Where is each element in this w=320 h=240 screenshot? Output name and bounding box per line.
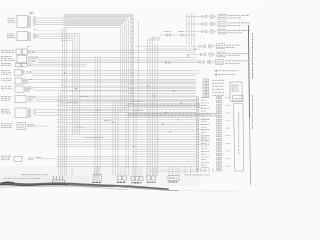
- lamp LP1 front combination RH: [187, 14, 250, 19]
- wire bundle nested corners top: [64, 19, 129, 112]
- connector column J3: [217, 97, 231, 171]
- lamp LP6: [38, 60, 248, 65]
- wire block L5: [57, 101, 211, 135]
- vertical harness V7: [155, 44, 158, 176]
- wire from B1: [35, 158, 57, 160]
- wire from D1: [26, 125, 48, 127]
- wire from F1: [34, 64, 87, 66]
- wire bus from E1: [38, 34, 77, 38]
- vertical harness trunk V1: [59, 28, 67, 176]
- page edge line: [248, 25, 250, 185]
- connector B6: [186, 168, 213, 175]
- connector B5: [168, 176, 179, 183]
- connector pin pairs J1: [203, 79, 224, 96]
- wire bus from M1: [36, 110, 196, 116]
- connector E103 inline: [165, 61, 170, 63]
- footer note: [4, 178, 40, 180]
- control unit U2: [1, 96, 35, 103]
- wire bus from S2: [38, 58, 201, 63]
- control unit U1 (A/T control): [8, 12, 36, 27]
- vertical harness V8 to lamps: [187, 14, 195, 48]
- wire color codes label: [21, 174, 48, 176]
- lamp LP4 clearance: [135, 44, 240, 49]
- terminal column J2: [197, 97, 210, 172]
- connector strip CS2: [128, 104, 200, 107]
- node TO EL-TAIL: [214, 70, 238, 76]
- wire group L8: [57, 157, 197, 167]
- connector strip CS1 top: [64, 15, 133, 104]
- junction box JB1: [233, 96, 244, 102]
- harness cover panel: [234, 104, 244, 172]
- wire group L3: [61, 81, 197, 96]
- margin note EL-44: [252, 33, 254, 129]
- wire bus from U2: [36, 97, 200, 102]
- connector B3: [131, 177, 143, 183]
- connector B2: [117, 176, 127, 182]
- connector strip CS3: [128, 113, 216, 116]
- lamp LP2 front combination LH: [187, 22, 250, 27]
- vertical harness V4: [113, 100, 118, 176]
- combination meter M1: [1, 108, 36, 118]
- lamp LP3 side marker: [187, 29, 250, 34]
- wire group L6: [57, 137, 211, 145]
- wire drops to bottom connectors: [72, 167, 191, 177]
- wire bus from E2: [32, 71, 200, 76]
- wire bus from S4: [33, 88, 196, 91]
- wire group L2: [64, 71, 199, 73]
- connector E102 inline: [145, 32, 200, 50]
- shielded wire L9: [150, 170, 196, 172]
- fuse F1: [1, 63, 33, 67]
- page curl shadow: [0, 182, 240, 191]
- ground G2: [53, 176, 65, 183]
- vertical harness V5: [126, 103, 136, 176]
- relay E2: [1, 70, 31, 75]
- node labels mid harness: [67, 97, 143, 138]
- ground connector G1: [92, 175, 102, 183]
- vertical harness V6: [139, 21, 161, 176]
- wire group L7: [57, 147, 197, 155]
- wire from S1: [35, 51, 196, 53]
- junction nodes: [64, 55, 189, 147]
- switch S2 lighting switch: [1, 55, 38, 63]
- wire bundle nested corners left: [61, 34, 80, 135]
- switch S1: [1, 47, 35, 55]
- connector B4: [147, 176, 156, 182]
- wire bus from S3: [28, 80, 196, 83]
- lamp LP5: [187, 52, 248, 57]
- sensor B1: [1, 156, 41, 161]
- fuse block F23: [230, 82, 242, 101]
- wire bus from U1: [36, 18, 128, 30]
- relay E1: [7, 30, 38, 41]
- vertical harness V3: [95, 56, 100, 176]
- switch S3: [1, 78, 34, 84]
- switch S4: [1, 86, 33, 92]
- connector E101 inline: [160, 32, 178, 37]
- diode D1 assembly: [1, 123, 35, 130]
